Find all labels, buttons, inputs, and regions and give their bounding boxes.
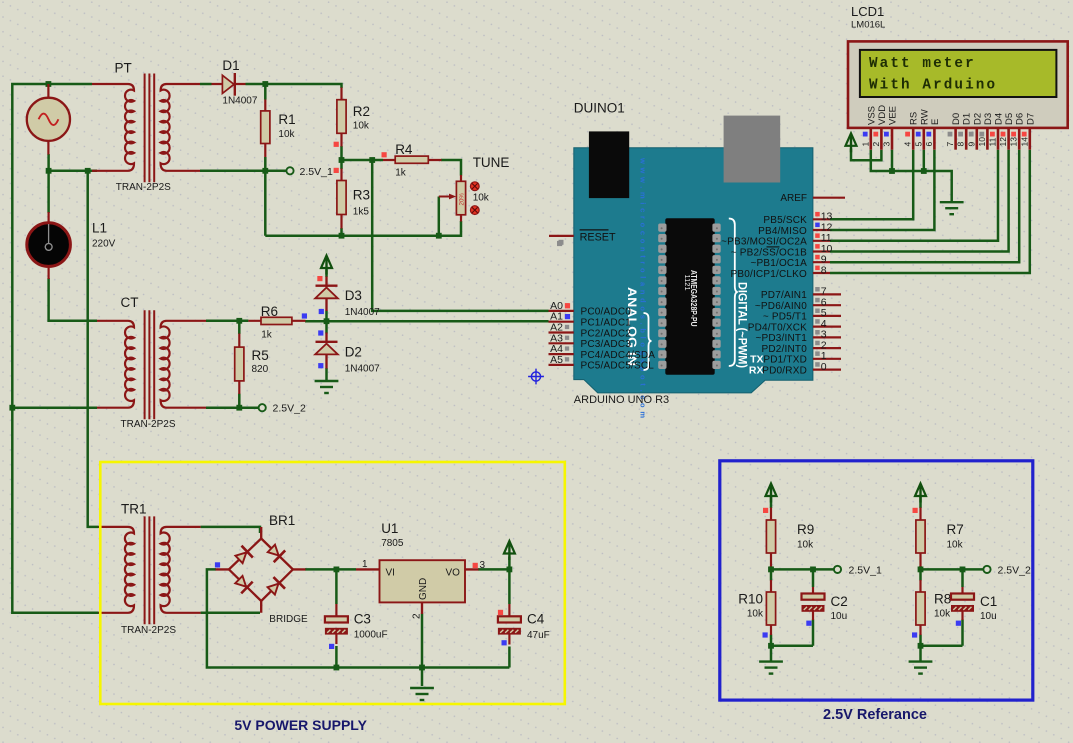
Arduino pin A0 (PC0/ADC0) — [549, 300, 632, 318]
svg-text:R2: R2 — [353, 104, 370, 119]
svg-text:11: 11 — [988, 137, 998, 146]
IC ATMEGA328P-PU — [658, 218, 721, 375]
LCD pin 3 (VEE) — [882, 106, 899, 150]
Arduino pin A1 (PC1/ADC1) — [549, 311, 632, 329]
wire U1 GND pin2 down — [421, 614, 424, 668]
power +5V arrow LCD VDD — [846, 133, 857, 152]
wire R3 bottom — [340, 228, 343, 236]
wire pot wiper down — [438, 197, 441, 236]
svg-text:TRAN-2P2S: TRAN-2P2S — [121, 419, 176, 430]
wire bridge left corner to ground rail (bottom row of PSU) — [207, 569, 510, 667]
svg-text:R4: R4 — [395, 142, 413, 157]
Arduino pin 6 (~PD6/AIN0) — [755, 297, 841, 313]
Arduino pin A4 (PC4/ADC4/SDA) — [549, 343, 656, 361]
svg-text:20%: 20% — [459, 193, 466, 206]
svg-text:RX: RX — [749, 364, 764, 376]
wire LCD RS pin4 to Arduino pin13 — [830, 150, 913, 220]
svg-text:D2: D2 — [345, 345, 362, 360]
wire bridge right corner to U1 VI — [305, 568, 356, 571]
wire LCD D6 pin13 to Arduino pin9 — [830, 150, 1019, 263]
svg-text:Watt meter: Watt meter — [869, 56, 976, 72]
wire ground stem ref-right — [919, 646, 922, 661]
svg-text:ARDUINO UNO R3: ARDUINO UNO R3 — [574, 394, 669, 406]
capacitor C4 47uF — [498, 604, 521, 645]
junction J15 U1 gnd — [419, 665, 425, 671]
wire CT primary bottom row (2.5V_2 rail left) — [12, 406, 97, 409]
svg-text:D7: D7 — [1025, 113, 1036, 125]
svg-text:3: 3 — [480, 560, 486, 571]
ground ref R8 — [909, 662, 933, 674]
wire ground stem of PSU — [421, 668, 424, 687]
resistor R3 1k5 — [337, 169, 346, 229]
svg-text:With Arduino: With Arduino — [869, 78, 997, 94]
Arduino pin 1 (PD1/TXD) — [763, 350, 841, 366]
LCD pin 6 (E) — [924, 119, 941, 150]
svg-text:2: 2 — [871, 142, 881, 147]
Arduino board DUINO1 (ARDUINO UNO R3) — [574, 116, 813, 419]
svg-text:RS: RS — [909, 112, 920, 125]
svg-text:PD7/AIN1: PD7/AIN1 — [761, 290, 807, 301]
wire R7 top from +5V arrow — [919, 497, 922, 508]
svg-text:PC3/ADC3: PC3/ADC3 — [581, 339, 632, 350]
svg-text:PD0/RXD: PD0/RXD — [762, 365, 807, 376]
junction J21 ref right node — [918, 567, 924, 573]
lamp L1 220V — [27, 212, 71, 279]
yellow box 5V POWER SUPPLY — [100, 462, 565, 704]
LCD pin 1 (VSS) — [860, 106, 877, 150]
Arduino pin 5 (~ PD5/T1) — [763, 307, 841, 323]
junction J3 PT bottom tap — [85, 168, 91, 174]
resistor R7 10k — [916, 508, 925, 567]
wire LCD RW pin5 to ground rail — [923, 150, 926, 171]
svg-text:TR1: TR1 — [121, 502, 147, 517]
LCD pin 14 (D7) — [1019, 113, 1036, 150]
svg-text:7: 7 — [945, 142, 955, 147]
LCD1 LM016L module — [848, 41, 1068, 128]
svg-text:PD1/TXD: PD1/TXD — [763, 355, 807, 366]
diode D3 stem lead — [325, 277, 327, 312]
left white brace — [644, 313, 652, 370]
wire C2 top drop — [812, 569, 815, 587]
wire LCD D5 pin12 to Arduino pin10 — [830, 150, 1009, 252]
svg-text:1k: 1k — [395, 168, 407, 179]
capacitor C2 10u — [802, 587, 825, 620]
svg-text:~ PB2/SS/OC1B: ~ PB2/SS/OC1B — [731, 247, 807, 258]
svg-text:D2: D2 — [972, 113, 983, 125]
Arduino pin 3 (~PD3/INT1) — [755, 329, 841, 345]
junction J18 ref left node — [768, 567, 774, 573]
svg-text:PB4/MISO: PB4/MISO — [758, 226, 807, 237]
wire ground stem ref-left — [770, 646, 773, 661]
svg-text:820: 820 — [252, 364, 269, 375]
svg-text:3: 3 — [882, 142, 892, 147]
Arduino pin A2 (PC2/ADC2) — [549, 322, 632, 340]
junction J6 R5 bottom — [236, 405, 242, 411]
wire CT secondary bottom to node 2.5V_2 — [206, 406, 259, 409]
svg-text:VEE: VEE — [888, 106, 899, 125]
svg-text:10k: 10k — [353, 121, 370, 132]
junction J12 2.5V_1 node — [262, 168, 268, 174]
gray pin markers — [557, 241, 562, 246]
junction J19 C2 top — [810, 567, 816, 573]
LCD pin 8 (D1) — [956, 113, 973, 150]
junction J25 LCD RW gnd — [921, 168, 927, 174]
svg-text:47uF: 47uF — [527, 630, 550, 641]
svg-text:10u: 10u — [980, 611, 997, 622]
node 2.5V_2 (reference box) — [983, 566, 990, 573]
svg-text:R6: R6 — [261, 304, 278, 319]
node 2.5V_1 (left) — [286, 167, 293, 174]
svg-text:TUNE: TUNE — [473, 155, 510, 170]
wire bottom row of tune network — [265, 221, 461, 236]
blue pin markers — [565, 314, 570, 319]
LCD pin 10 (D3) — [977, 113, 994, 150]
resistor R2 10k — [337, 88, 346, 147]
svg-text:5V POWER SUPPLY: 5V POWER SUPPLY — [234, 717, 367, 733]
svg-text:D1: D1 — [962, 113, 973, 125]
resistor R1 10k — [261, 100, 270, 158]
diode D2 stem lead — [325, 333, 327, 369]
wire R9 bottom to 2.5V_1 node row — [771, 566, 834, 569]
svg-text:10: 10 — [977, 137, 987, 147]
svg-text:PD2/INT0: PD2/INT0 — [761, 344, 807, 355]
potentiometer TUNE 10k — [439, 175, 479, 222]
power jack (black) — [589, 131, 629, 198]
wire +5V arrow to LCD VDD pin2 — [851, 149, 881, 161]
svg-text:R10: R10 — [738, 592, 763, 607]
svg-text:CT: CT — [121, 295, 139, 310]
Arduino pin 11 (~PB3/MOSI/OC2A) — [721, 232, 832, 248]
svg-text:12: 12 — [998, 137, 1008, 147]
wire R3 top — [340, 160, 343, 169]
RESET pin — [549, 230, 616, 245]
svg-text:2.5V_2: 2.5V_2 — [273, 403, 306, 415]
Arduino pin 2 (PD2/INT0) — [761, 339, 841, 355]
svg-text:BR1: BR1 — [269, 513, 295, 528]
wire 2.5V_1 node row (PT secondary bottom to node) — [200, 170, 286, 173]
regulator U1 7805 — [356, 560, 479, 614]
svg-text:LCD1: LCD1 — [851, 4, 884, 19]
power +5V arrow above R7 — [915, 484, 926, 503]
wire D3 anode / D2 cathode column — [325, 311, 328, 334]
junction J16 C3 top — [334, 567, 340, 573]
svg-text:D4: D4 — [994, 113, 1005, 125]
USB connector (gray) — [724, 116, 781, 183]
svg-text:13: 13 — [1009, 137, 1019, 147]
blue box 2.5V Referance — [720, 461, 1033, 700]
Arduino pin 8 (PB0/ICP1/CLKO) — [730, 264, 830, 280]
wire R8 bottom row to C1 bottom — [921, 620, 963, 646]
svg-text:PC2/ADC2: PC2/ADC2 — [581, 328, 632, 339]
Arduino pin 10 (~ PB2/SS/OC1B) — [731, 243, 833, 258]
svg-text:~PD3/INT1: ~PD3/INT1 — [755, 333, 807, 344]
svg-text:LM016L: LM016L — [851, 19, 885, 30]
wire R5 top connection — [238, 321, 241, 334]
diode D2 (1N4007) — [315, 342, 338, 355]
svg-text:1k: 1k — [261, 330, 273, 341]
wire C1 top drop — [961, 569, 964, 587]
Arduino pin 13 (PB5/SCK) — [763, 211, 832, 227]
wire LCD D4 pin11 to Arduino pin11 — [830, 150, 998, 241]
svg-text:0: 0 — [821, 361, 827, 373]
junction J23 ref right gnd — [918, 643, 924, 649]
svg-text:10k: 10k — [473, 193, 490, 204]
svg-text:2.5V_2: 2.5V_2 — [998, 564, 1031, 576]
svg-text:1: 1 — [860, 142, 870, 147]
wire lamp bottom to CT primary top row — [49, 278, 97, 321]
junction J1 source/PT top — [46, 81, 52, 87]
power +5V arrow above D3 — [321, 256, 332, 275]
wire R5 bottom connection — [238, 394, 241, 408]
svg-text:D3: D3 — [345, 288, 362, 303]
no-connect crosshair marker — [528, 369, 544, 385]
wire PT secondary top to D1 anode — [200, 83, 212, 86]
svg-text:TRAN-2P2S: TRAN-2P2S — [121, 625, 176, 636]
node 2.5V_1 (reference box) — [834, 566, 841, 573]
svg-text:2.5V_1: 2.5V_1 — [849, 564, 882, 576]
junction J13 D1/R1 — [262, 81, 268, 87]
svg-text:PD4/T0/XCK: PD4/T0/XCK — [748, 322, 807, 333]
svg-text:1N4007: 1N4007 — [345, 364, 380, 375]
svg-text:10u: 10u — [831, 611, 848, 622]
transformer CT (TRAN-2P2S) — [97, 310, 206, 419]
red pin markers — [334, 142, 339, 147]
svg-text:~ PD5/T1: ~ PD5/T1 — [763, 312, 807, 323]
wire C4 bottom — [508, 647, 511, 668]
wire D2 anode to ground — [325, 368, 328, 381]
wire TR1 secondary top to bridge top — [201, 527, 260, 533]
svg-text:PC5/ADC5/SCL: PC5/ADC5/SCL — [581, 361, 655, 372]
svg-text:D6: D6 — [1015, 113, 1026, 125]
svg-text:1N4007: 1N4007 — [222, 96, 257, 107]
svg-text:5: 5 — [913, 142, 923, 147]
wire D1 cathode to R2 top — [246, 84, 342, 88]
svg-text:TRAN-2P2S: TRAN-2P2S — [116, 182, 171, 193]
svg-text:1N4007: 1N4007 — [345, 307, 380, 318]
bridge rectifier BR1 — [216, 527, 306, 613]
svg-text:D1: D1 — [222, 58, 239, 73]
svg-text:PC0/ADC0: PC0/ADC0 — [581, 307, 632, 318]
svg-text:4: 4 — [903, 142, 913, 147]
svg-text:6: 6 — [924, 142, 934, 147]
transformer PT (TRAN-2P2S) — [92, 74, 200, 183]
junction J8 R2/R3 — [339, 157, 345, 163]
svg-text:VI: VI — [386, 568, 395, 579]
svg-text:10k: 10k — [747, 609, 764, 620]
LCD pin 4 (RS) — [903, 112, 920, 150]
junction J7 D3/D2/A1 — [324, 318, 330, 324]
svg-text:A5: A5 — [550, 354, 563, 366]
junction J22 C1 top — [960, 567, 966, 573]
wire AC source to lamp vertical — [47, 154, 50, 213]
LCD pin 9 (D2) — [966, 113, 983, 150]
svg-text:PC4/ADC4/SDA: PC4/ADC4/SDA — [581, 350, 656, 361]
svg-text:9: 9 — [966, 142, 976, 147]
svg-text:10k: 10k — [797, 540, 814, 551]
wire row160 R2/R4 node — [342, 159, 384, 162]
svg-text:8: 8 — [956, 142, 966, 147]
svg-text:ATMEGA328P-PU: ATMEGA328P-PU — [689, 270, 698, 327]
wire PT primary bottom junction down to TR1 primary top — [88, 171, 99, 527]
junction J5 R6/R5 — [236, 318, 242, 324]
junction J14 C3 gnd — [334, 665, 340, 671]
svg-text:R1: R1 — [278, 112, 295, 127]
diode D1 1N4007 — [212, 73, 246, 96]
wire CT secondary top to R6 — [206, 320, 248, 323]
ground PSU — [410, 688, 434, 700]
svg-text:VSS: VSS — [866, 106, 877, 125]
wire PT primary bottom row — [49, 170, 97, 173]
svg-text:7805: 7805 — [381, 538, 404, 549]
wire R7 bottom to 2.5V_2 node row — [921, 566, 984, 569]
junction J4 left rail 2.5V_2 row — [9, 405, 15, 411]
svg-text:PB5/SCK: PB5/SCK — [763, 215, 807, 226]
svg-text:8: 8 — [821, 264, 827, 276]
wire R4 right to pot TUNE top — [441, 160, 461, 176]
wire R6 right to Arduino A1 (net A1) — [305, 320, 549, 323]
capacitor C3 1000uF — [325, 604, 348, 644]
resistor R5 820 — [235, 334, 244, 395]
svg-text:10k: 10k — [278, 129, 295, 140]
svg-text:GND: GND — [418, 578, 429, 600]
ground ref R10 — [759, 662, 783, 674]
svg-text:VDD: VDD — [877, 105, 888, 125]
svg-text:C3: C3 — [354, 612, 371, 627]
resistor R10 10k — [766, 580, 775, 635]
svg-text:R7: R7 — [947, 522, 964, 537]
wire node row160 down to Arduino A0 (net A0) — [372, 160, 548, 311]
Arduino pin 0 (PD0/RXD) — [762, 361, 841, 377]
Arduino pin A5 (PC5/ADC5/SCL) — [549, 354, 655, 372]
junction J9 A0 tap — [369, 157, 375, 163]
AC source (alternator) — [27, 84, 70, 155]
svg-text:RESET: RESET — [580, 232, 616, 244]
svg-text:10k: 10k — [947, 540, 964, 551]
svg-text:~PB3/MOSI/OC2A: ~PB3/MOSI/OC2A — [721, 237, 807, 248]
svg-text:2: 2 — [412, 613, 423, 619]
svg-text:VO: VO — [446, 568, 461, 579]
wire LCD VEE pin3 to ground rail — [891, 150, 894, 171]
Arduino pin 9 (~PB1/OC1A) — [750, 254, 830, 270]
wire R1 top — [264, 84, 267, 100]
Arduino pin A3 (PC3/ADC3) — [549, 332, 632, 350]
wire C3 bottom — [335, 646, 338, 668]
resistor R9 10k — [766, 508, 775, 567]
wire R2 bottom to row160 — [340, 146, 343, 160]
svg-text:1k5: 1k5 — [353, 207, 370, 218]
svg-text:220V: 220V — [92, 239, 116, 250]
wire U1 VO to +5V arrow / C4 — [478, 557, 509, 605]
ground below D2 — [315, 381, 339, 393]
svg-text:~PB1/OC1A: ~PB1/OC1A — [750, 258, 807, 269]
wire LCD VSS pin1 ground rail — [871, 150, 952, 202]
junction J24 LCD VEE gnd — [889, 168, 895, 174]
LCD pin 11 (D4) — [988, 113, 1005, 150]
Arduino pin AREF — [780, 193, 845, 204]
svg-text:AREF: AREF — [780, 193, 807, 204]
power +5V arrow PSU output — [504, 541, 515, 560]
svg-text:PB0/ICP1/CLKO: PB0/ICP1/CLKO — [730, 269, 807, 280]
svg-text:1: 1 — [362, 559, 368, 570]
LCD pin 7 (D0) — [945, 113, 962, 150]
resistor R8 10k — [916, 580, 925, 635]
svg-text:L1: L1 — [92, 221, 107, 236]
junction J20 ref left gnd — [768, 643, 774, 649]
wire D3 cathode to +5V arrow — [325, 270, 328, 278]
wire LCD D7 pin14 to Arduino pin8 — [830, 150, 1030, 273]
wire C3 top — [335, 569, 338, 604]
diode D3 (1N4007) — [315, 286, 338, 299]
wire TR1 secondary bottom to bridge bottom — [201, 612, 260, 615]
svg-text:D5: D5 — [1004, 113, 1015, 125]
junction J11 R3 bottom — [339, 233, 345, 239]
svg-text:C2: C2 — [831, 594, 848, 609]
node 2.5V_2 (left) — [259, 404, 266, 411]
junction J10 wiper bottom — [436, 233, 442, 239]
resistor R6 1k — [248, 317, 305, 324]
power +5V arrow above R9 — [766, 484, 777, 503]
capacitor C1 10u — [951, 587, 974, 620]
wire R10 top — [770, 569, 773, 580]
wire LCD E pin6 to Arduino pin12 — [830, 150, 934, 230]
LCD pin 13 (D6) — [1009, 113, 1026, 150]
svg-text:BRIDGE: BRIDGE — [269, 614, 308, 625]
Arduino pin 4 (PD4/T0/XCK) — [748, 318, 841, 334]
Arduino pin 12 (PB4/MISO) — [758, 221, 832, 237]
svg-text:RW: RW — [919, 109, 930, 125]
transformer TR1 (TRAN-2P2S) — [99, 516, 201, 624]
svg-text:2.5V Referance: 2.5V Referance — [823, 707, 927, 723]
svg-text:10k: 10k — [934, 609, 951, 620]
LCD pin 12 (D5) — [998, 113, 1015, 150]
svg-text:C1: C1 — [980, 594, 997, 609]
wire R10 bottom row to C2 bottom — [771, 620, 813, 646]
junction J2 PT primary bottom — [46, 168, 52, 174]
svg-text:R9: R9 — [797, 522, 814, 537]
Arduino pin 7 (PD7/AIN1) — [761, 286, 841, 302]
svg-text:DUINO1: DUINO1 — [574, 101, 625, 116]
svg-text:14: 14 — [1019, 137, 1029, 147]
svg-text:R3: R3 — [353, 188, 370, 203]
svg-text:2.5V_1: 2.5V_1 — [300, 166, 333, 178]
LCD pin 2 (VDD) — [871, 105, 888, 150]
svg-text:D0: D0 — [951, 113, 962, 125]
svg-text:R5: R5 — [252, 348, 269, 363]
svg-text:~PD6/AIN0: ~PD6/AIN0 — [755, 301, 807, 312]
svg-text:E: E — [930, 119, 941, 125]
svg-text:PC1/ADC1: PC1/ADC1 — [581, 318, 632, 329]
right white brace — [729, 219, 738, 367]
junction J17 VO/C4 — [507, 567, 513, 573]
svg-text:C4: C4 — [527, 612, 545, 627]
svg-text:PT: PT — [115, 61, 132, 76]
resistor R4 1k — [383, 156, 442, 163]
overline over SS of PB2 — [767, 246, 780, 248]
wire R8 top — [919, 569, 922, 580]
wire R9 top from +5V arrow — [770, 497, 773, 508]
ground LCD — [940, 202, 964, 214]
LCD pin 5 (RW) — [913, 109, 930, 149]
wire left rail from PT primary top down to TR1 primary bottom — [12, 84, 98, 613]
svg-text:D3: D3 — [983, 113, 994, 125]
svg-text:1000uF: 1000uF — [354, 630, 388, 641]
svg-text:U1: U1 — [381, 521, 398, 536]
wire R1 bottom / 2.5V_1 node column — [264, 157, 267, 236]
svg-text:R8: R8 — [934, 592, 951, 607]
